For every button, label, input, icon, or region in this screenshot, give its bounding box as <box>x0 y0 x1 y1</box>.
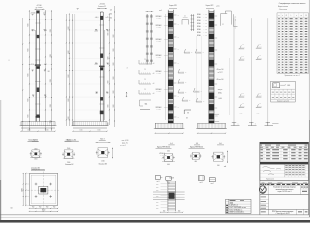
svg-text:+37,500: +37,500 <box>36 5 41 7</box>
svg-text:6000: 6000 <box>68 116 70 119</box>
svg-text:Обозначение: Обозначение <box>279 9 288 11</box>
node V ladder detail label <box>169 178 173 180</box>
stirrup staple detail 1 <box>182 16 188 25</box>
label under cage KP1 <box>156 147 172 149</box>
svg-text:Ø28: Ø28 <box>156 207 159 209</box>
position text cluster between cages <box>197 13 207 37</box>
svg-text:750: 750 <box>46 207 49 209</box>
svg-text:L=11800: L=11800 <box>156 73 161 75</box>
svg-text:M: M <box>305 15 306 17</box>
title text centre of stamp <box>268 186 300 195</box>
svg-text:Указания по монтажу сборных: Указания по монтажу сборных <box>273 187 296 189</box>
svg-text:6000: 6000 <box>28 98 30 101</box>
svg-text:400: 400 <box>167 164 170 166</box>
svg-text:+37,500: +37,500 <box>99 4 105 6</box>
angle piece details stack <box>139 59 154 95</box>
small corner detail 3 anchor base with leader <box>265 122 279 126</box>
svg-text:6000: 6000 <box>68 50 70 53</box>
column K1 level flags near top <box>32 14 46 15</box>
cage KP1 left annotation stacks <box>156 14 168 120</box>
svg-text:Ø28: Ø28 <box>156 201 159 203</box>
text cluster left of section 4-4 <box>159 152 165 160</box>
svg-text:Башмак Б2: Башмак Б2 <box>65 164 73 166</box>
anchor plan detail label <box>31 169 45 171</box>
scan dark bottom band <box>0 220 310 223</box>
scan faint sheet edge line <box>0 217 310 219</box>
svg-text:n=8: n=8 <box>161 158 163 160</box>
svg-text:отм. -0,150: отм. -0,150 <box>122 140 129 142</box>
svg-text:Примечание: Примечание <box>266 179 274 181</box>
L-bar detail right of cage2 <box>234 14 238 26</box>
small corner detail 1 anchor base <box>231 122 240 125</box>
svg-text:железобетонных колонн: железобетонных колонн <box>276 189 294 191</box>
svg-text:280: 280 <box>110 13 112 15</box>
svg-text:6000: 6000 <box>28 114 30 117</box>
svg-text:L=11800: L=11800 <box>156 27 161 29</box>
svg-text:6000: 6000 <box>68 98 70 101</box>
cage KP1 top label <box>169 5 177 8</box>
svg-text:1500: 1500 <box>67 148 70 150</box>
svg-text:500: 500 <box>217 165 220 167</box>
svg-text:Б2: Б2 <box>108 63 110 65</box>
section detail 1-1 <box>30 140 42 170</box>
plate glyph b <box>166 177 171 185</box>
svg-text:Спецификация элементов колонн: Спецификация элементов колонн <box>279 2 306 5</box>
svg-text:3000: 3000 <box>22 188 24 192</box>
svg-text:М1: М1 <box>48 71 50 73</box>
svg-text:1500: 1500 <box>80 130 83 132</box>
svg-text:3000: 3000 <box>42 210 46 212</box>
svg-text:250: 250 <box>163 211 166 213</box>
column K1 footing detail <box>20 122 57 132</box>
svg-text:12000: 12000 <box>50 120 52 124</box>
reinforcement cage KP1 <box>168 10 173 124</box>
svg-text:L=950: L=950 <box>204 26 208 28</box>
svg-text:1500: 1500 <box>46 130 49 132</box>
rebar bars detail <box>146 10 163 65</box>
svg-text:пл.4: пл.4 <box>211 183 214 185</box>
main title block stamp <box>260 142 309 215</box>
long extension line right of cage2 <box>229 58 231 115</box>
svg-text:Каркас КР1 М1:20: Каркас КР1 М1:20 <box>157 147 170 149</box>
cage KP2 top label <box>206 5 214 8</box>
scan right edge line <box>308 0 310 217</box>
svg-text:L=600: L=600 <box>160 155 164 157</box>
svg-text:12000: 12000 <box>50 54 52 58</box>
section marker A <box>126 68 128 97</box>
svg-text:Ø28: Ø28 <box>156 186 159 188</box>
svg-text:1500: 1500 <box>28 130 31 132</box>
svg-text:2100: 2100 <box>67 162 70 164</box>
label under column K1 <box>28 140 39 142</box>
svg-text:750: 750 <box>39 207 42 209</box>
column K2 footing detail <box>72 122 109 132</box>
steel usage table header strip <box>260 162 309 164</box>
svg-text:Колонна К2: Колонна К2 <box>98 6 106 8</box>
svg-text:Ø28: Ø28 <box>156 204 159 206</box>
section detail 4-4 <box>162 143 175 166</box>
svg-text:1500: 1500 <box>34 159 37 161</box>
svg-text:L=11800: L=11800 <box>156 18 161 20</box>
svg-text:поз.3: поз.3 <box>159 10 162 12</box>
svg-text:Ø6 шаг 300: Ø6 шаг 300 <box>217 79 224 81</box>
svg-text:Башмак Б3: Башмак Б3 <box>99 164 107 166</box>
institute emblem logo <box>259 186 266 194</box>
column K1 elevation <box>9 11 52 132</box>
svg-text:ВД1: ВД1 <box>145 104 148 106</box>
svg-text:12000: 12000 <box>50 29 52 33</box>
cage KP1 footing <box>154 123 185 133</box>
svg-text:125: 125 <box>110 9 112 11</box>
svg-text:9000: 9000 <box>108 80 110 83</box>
anchor rod vertical lines <box>234 18 268 122</box>
svg-text:6000: 6000 <box>68 26 70 29</box>
svg-text:L=950: L=950 <box>204 20 208 22</box>
bracket and text mid lower <box>184 110 191 120</box>
svg-text:Ø8 шаг 200: Ø8 шаг 200 <box>217 69 224 71</box>
short bar pair detail <box>190 14 194 31</box>
svg-text:3000: 3000 <box>113 104 115 107</box>
svg-text:Каркас КР2 М1:20: Каркас КР2 М1:20 <box>190 147 203 149</box>
svg-text:3000: 3000 <box>113 76 115 79</box>
scan left edge line <box>0 100 2 220</box>
svg-text:+24,0: +24,0 <box>94 31 98 33</box>
svg-text:3000: 3000 <box>113 90 115 93</box>
cage KP1 right tick marks <box>174 15 180 119</box>
svg-text:6000: 6000 <box>28 23 30 26</box>
reinforcement cage KP2 <box>209 10 214 124</box>
svg-text:хомуты: хомуты <box>218 89 223 91</box>
svg-text:Каркас КР2: Каркас КР2 <box>206 5 214 7</box>
column K2 tiny annotation texts <box>68 16 110 125</box>
svg-text:6000: 6000 <box>68 74 70 77</box>
label under column K2 detail <box>65 139 79 141</box>
spec table header strip <box>260 142 309 144</box>
right zone top marks <box>235 19 237 30</box>
svg-text:+30,0: +30,0 <box>95 17 99 19</box>
svg-text:6000: 6000 <box>28 73 30 76</box>
svg-text:3000: 3000 <box>113 48 115 51</box>
node V bottom dimensions <box>160 211 183 213</box>
note line under specification table <box>284 75 300 77</box>
section detail 3-3 <box>96 139 113 166</box>
svg-text:1500: 1500 <box>34 148 37 150</box>
svg-text:n=4: n=4 <box>224 166 227 168</box>
column K2 top label <box>97 4 107 9</box>
svg-text:+12,6: +12,6 <box>94 63 98 65</box>
svg-text:10: 10 <box>11 207 13 209</box>
svg-text:9000: 9000 <box>108 56 110 59</box>
svg-text:серии 1.423-3 вып.1: серии 1.423-3 вып.1 <box>278 191 292 193</box>
svg-text:+33,600: +33,600 <box>30 13 35 15</box>
reference documents list table <box>226 199 251 213</box>
svg-text:9000: 9000 <box>108 122 110 125</box>
svg-text:400: 400 <box>194 161 197 163</box>
svg-text:+12,6: +12,6 <box>30 64 34 66</box>
svg-text:750: 750 <box>32 207 35 209</box>
svg-text:750: 750 <box>53 207 56 209</box>
svg-text:Узел В: Узел В <box>169 178 173 180</box>
column K2 elevation <box>66 8 110 126</box>
svg-text:С2: С2 <box>222 24 224 26</box>
column K1 tiny annotation texts <box>28 12 52 124</box>
anchor plan detail <box>11 172 59 212</box>
svg-text:1500: 1500 <box>98 130 101 132</box>
svg-text:6000: 6000 <box>28 48 30 51</box>
svg-text:L=950: L=950 <box>204 29 208 31</box>
lane bottom small text marks <box>240 113 260 115</box>
svg-text:L=11800: L=11800 <box>156 57 161 59</box>
extension lines flanking position texts <box>197 36 202 100</box>
plate glyph a <box>155 176 162 184</box>
svg-text:2100: 2100 <box>101 161 104 163</box>
svg-text:Б-1: Б-1 <box>45 30 47 32</box>
svg-text:+24,0: +24,0 <box>31 30 35 32</box>
svg-text:Ø28: Ø28 <box>156 195 159 197</box>
svg-text:Ø: Ø <box>286 15 287 17</box>
svg-text:L=900: L=900 <box>218 98 222 100</box>
stage sheet cells right of title <box>301 186 309 192</box>
svg-text:9000: 9000 <box>108 32 110 35</box>
sheet bottom frame line <box>0 214 310 216</box>
svg-text:Каркас КР1: Каркас КР1 <box>169 5 177 7</box>
svg-text:ГПИ Проектстальконструкция: ГПИ Проектстальконструкция <box>272 211 294 213</box>
svg-text:Ø28: Ø28 <box>156 189 159 191</box>
svg-text:12000: 12000 <box>50 79 52 83</box>
steel usage table body <box>260 164 309 180</box>
svg-text:3000: 3000 <box>113 34 115 37</box>
plate glyph c <box>198 176 204 184</box>
svg-text:М8: М8 <box>187 112 189 114</box>
svg-text:МН1: МН1 <box>287 85 290 87</box>
plate glyph d <box>209 178 215 186</box>
bent bar detail lower <box>140 100 152 110</box>
svg-text:С1: С1 <box>184 16 186 18</box>
materials spec table above title block <box>260 142 309 162</box>
svg-text:см. лист 3: см. лист 3 <box>120 145 126 147</box>
svg-text:по ГОСТ: по ГОСТ <box>217 72 222 74</box>
svg-text:М2: М2 <box>107 93 109 95</box>
lower left column of stamp <box>260 195 269 215</box>
text cluster right of K2 detail <box>120 140 129 147</box>
svg-text:Б-2: Б-2 <box>44 64 46 66</box>
node V left annotations <box>156 183 167 209</box>
label under cage KP2 <box>189 147 205 149</box>
svg-text:ур. головки: ур. головки <box>36 7 43 9</box>
svg-text:L=11800: L=11800 <box>156 91 161 93</box>
svg-text:3000: 3000 <box>113 62 115 65</box>
angle glyphs between cages <box>178 49 204 103</box>
svg-text:Ø28: Ø28 <box>156 183 159 185</box>
svg-text:250: 250 <box>178 211 181 213</box>
svg-text:Марка колонны: Марка колонны <box>278 6 288 8</box>
organisation name bottom row <box>261 209 308 215</box>
svg-text:L=11800: L=11800 <box>156 41 161 43</box>
staple detail right of cage2 <box>221 11 232 26</box>
svg-text:9000: 9000 <box>108 104 110 107</box>
section detail 2-2 <box>62 140 75 167</box>
dimension texts left of long line <box>109 9 115 107</box>
embedded part glyph rows <box>239 43 262 107</box>
section detail 6-6 <box>211 143 228 168</box>
svg-text:Примечание: см. лист 2: Примечание: см. лист 2 <box>284 75 300 77</box>
svg-text:Ø6: Ø6 <box>186 118 188 120</box>
cage KP2 footing <box>196 123 227 133</box>
svg-text:L=950: L=950 <box>204 32 208 34</box>
column K1 top label <box>35 5 45 10</box>
specification table header text <box>278 2 305 11</box>
svg-text:L=950: L=950 <box>204 35 208 37</box>
svg-text:узлы: узлы <box>216 5 219 7</box>
text bits right of cage2 lower <box>217 69 224 100</box>
small corner detail 2 anchor base <box>248 122 257 125</box>
reference list dark text rows <box>226 205 246 214</box>
top label right of cage2 <box>216 5 219 7</box>
svg-text:L=950: L=950 <box>204 14 208 16</box>
svg-text:пл.1: пл.1 <box>157 181 160 183</box>
svg-text:+6,0: +6,0 <box>95 93 98 95</box>
svg-text:СНиП 2.03.01-84 б.: СНиП 2.03.01-84 б. <box>229 212 245 214</box>
svg-text:пл.3: пл.3 <box>200 182 203 184</box>
small parts table with plate sketch <box>271 81 296 102</box>
svg-text:12000: 12000 <box>50 104 52 108</box>
svg-text:2450: 2450 <box>109 18 112 20</box>
section detail 5-5 <box>190 143 201 163</box>
svg-text:400: 400 <box>167 151 170 153</box>
svg-text:m: m <box>301 15 302 17</box>
svg-text:Б1: Б1 <box>107 31 109 33</box>
specification table grid <box>277 13 309 74</box>
svg-text:L=950: L=950 <box>204 17 208 19</box>
node V ladder detail <box>153 181 185 211</box>
svg-text:L=950: L=950 <box>204 23 208 25</box>
svg-text:L=11800: L=11800 <box>156 109 161 111</box>
cage KP2 right dimension marks <box>214 16 219 122</box>
long dimension line right of K2 <box>113 6 116 127</box>
approval row strip <box>260 182 309 186</box>
